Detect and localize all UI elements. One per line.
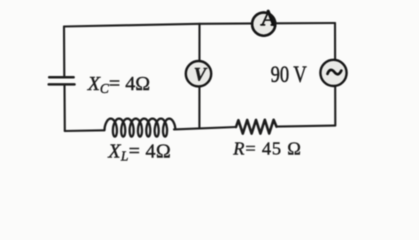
svg-text:90 V: 90 V <box>271 62 308 87</box>
ammeter A <box>252 11 275 36</box>
svg-text:V: V <box>194 65 208 86</box>
resistor R <box>236 120 277 134</box>
wire <box>63 86 65 131</box>
svg-text:XL= 4Ω: XL= 4Ω <box>107 141 171 164</box>
node bottom junction (voltmeter branch / bottom wire) <box>199 128 201 130</box>
capacitor C1 XC <box>49 77 75 84</box>
wire left <box>63 27 65 76</box>
voltmeter V <box>186 61 211 86</box>
wire top <box>64 23 335 27</box>
wire bottom-left <box>65 129 105 132</box>
node top junction (voltmeter branch / top wire) <box>199 23 201 25</box>
svg-text:R= 45 Ω: R= 45 Ω <box>232 138 301 158</box>
inductor XL <box>105 119 176 137</box>
wire voltmeter branch <box>198 24 200 129</box>
svg-text:XC= 4Ω: XC= 4Ω <box>87 73 150 96</box>
ac source <box>320 60 346 86</box>
wire right <box>334 23 336 126</box>
wire bottom-right <box>277 126 336 127</box>
wire bottom-mid <box>174 127 236 129</box>
